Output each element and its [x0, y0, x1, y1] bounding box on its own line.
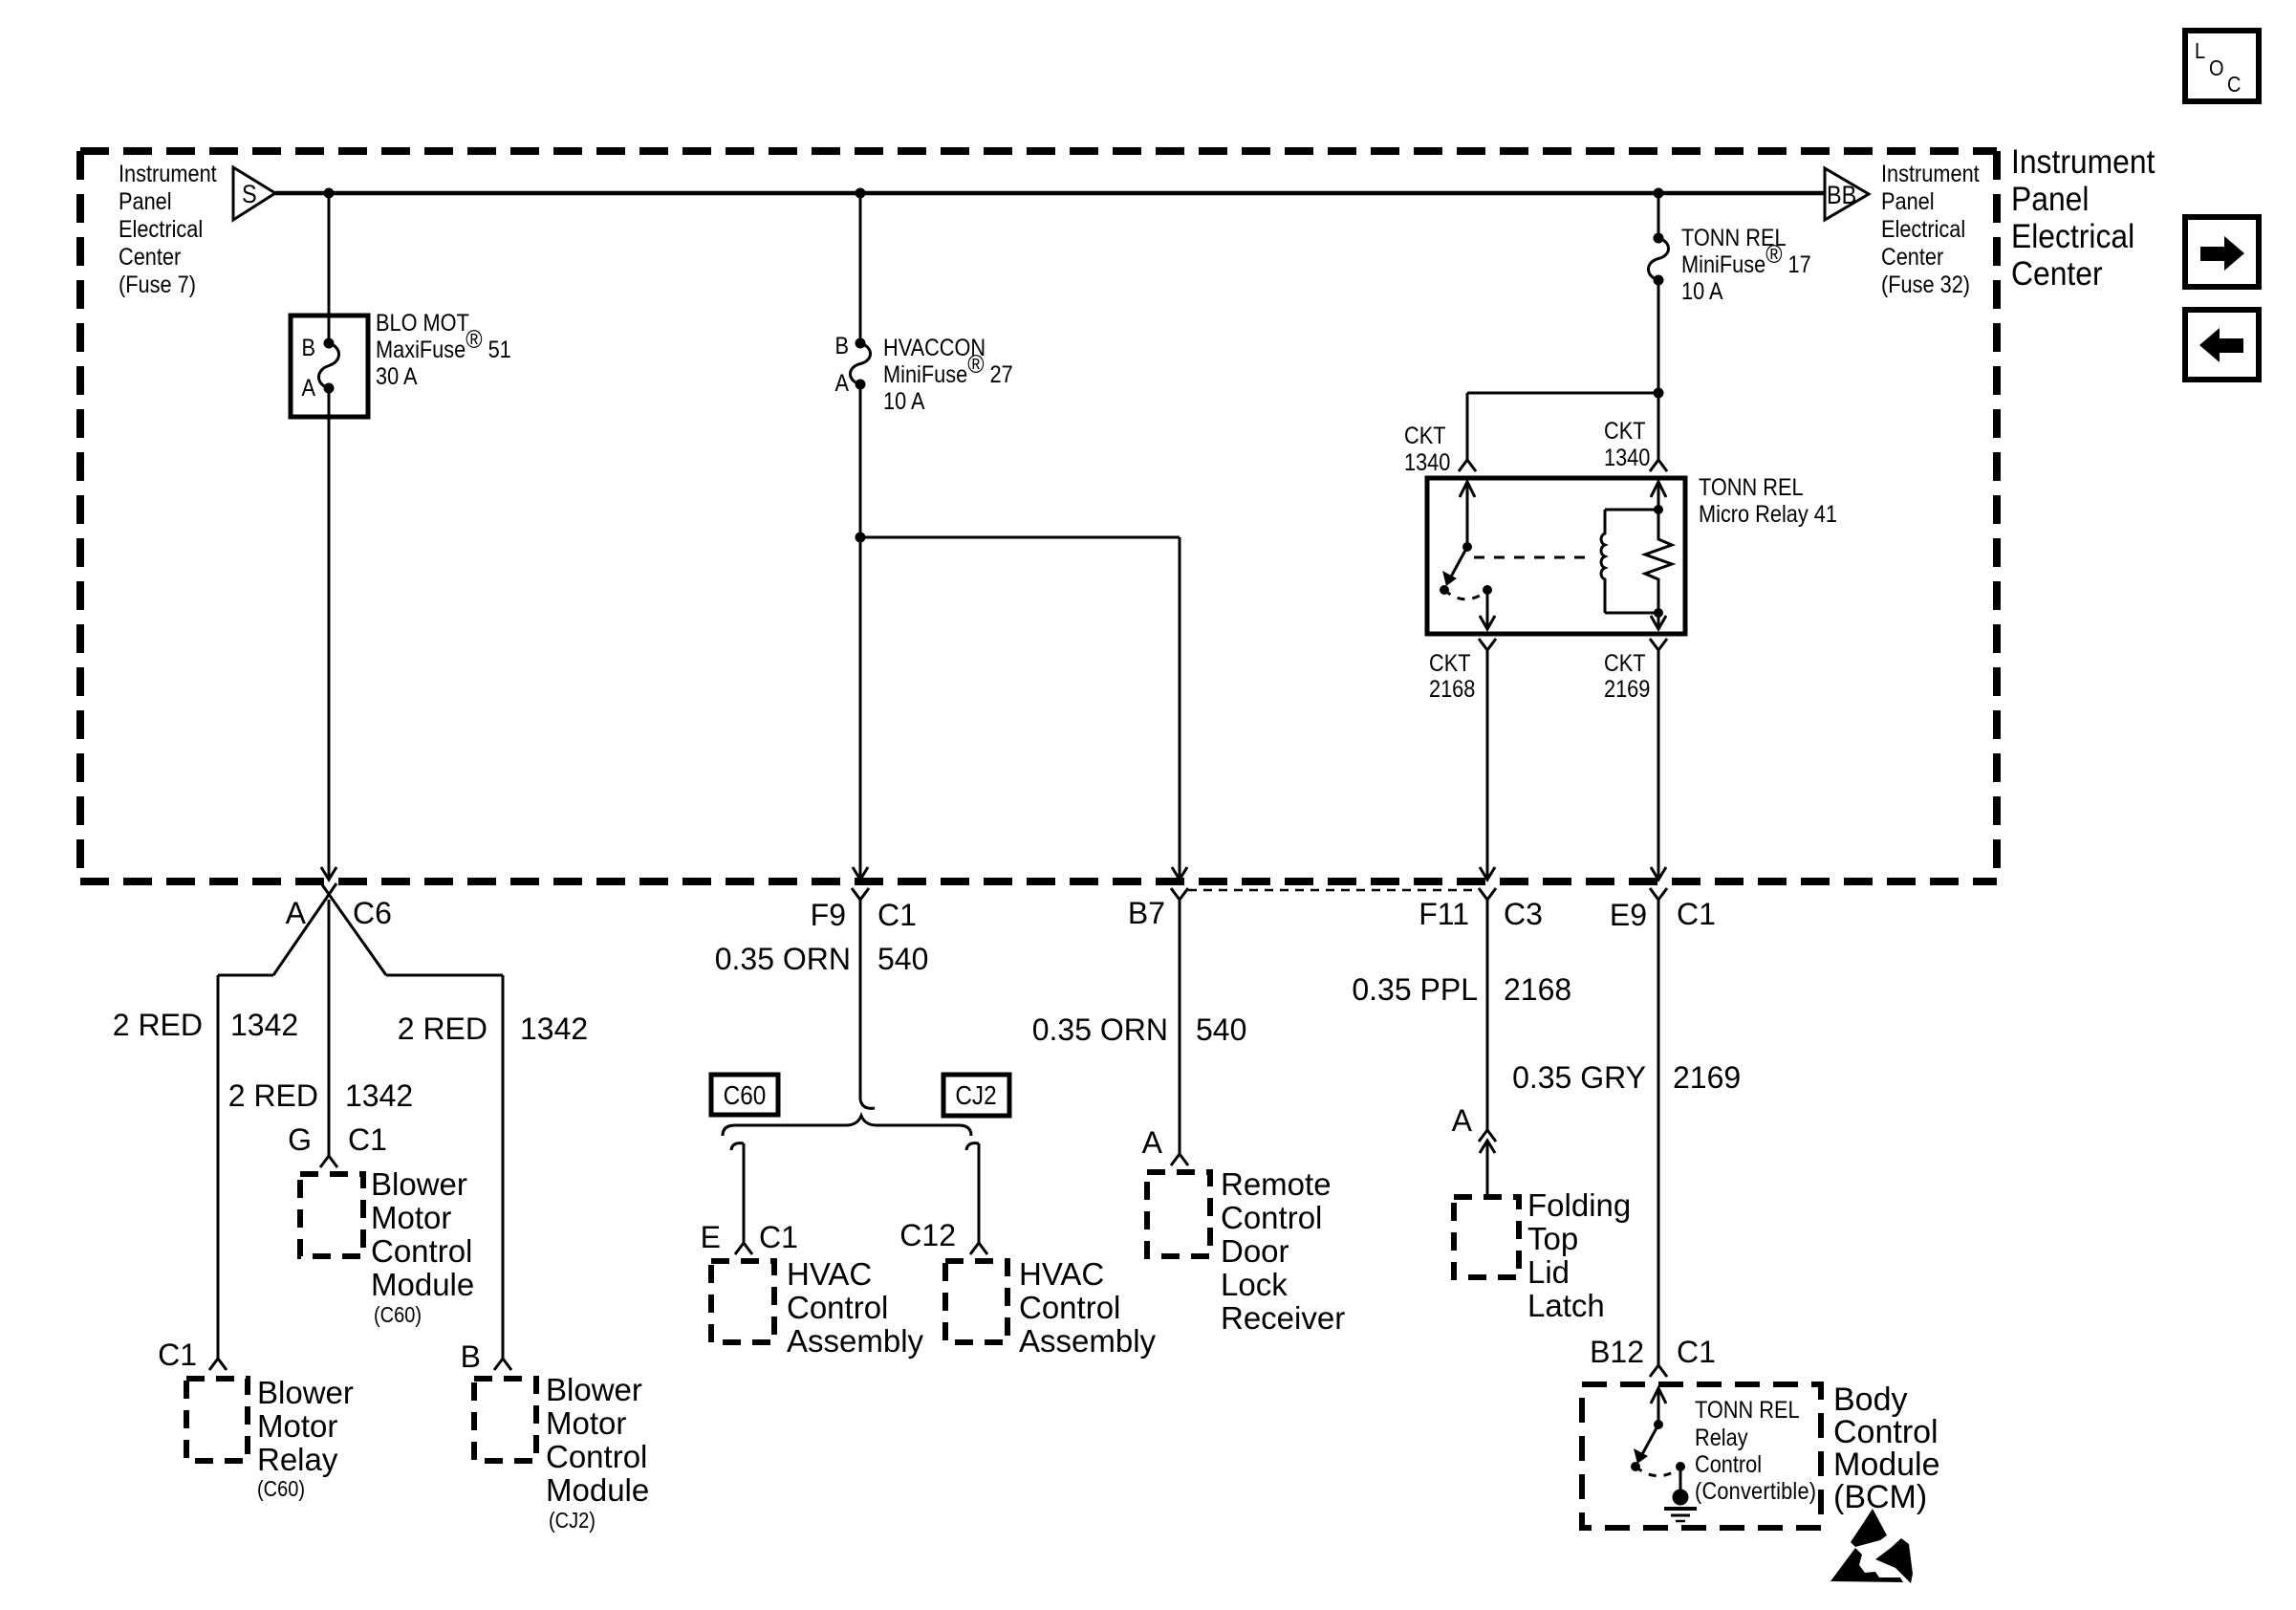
- wire: fuse 51 to connector C6 pin A: [328, 388, 331, 880]
- arrow at C6 connector: [321, 867, 336, 880]
- wire: F9 down to splice: [859, 900, 862, 1099]
- relay pin arrow (left, in): [1460, 482, 1475, 497]
- label: TONN REL MiniFuse 17 10 A: [1681, 225, 1811, 305]
- relay pin arrow (right, in): [1651, 482, 1666, 497]
- svg-text:CKT: CKT: [1604, 418, 1645, 445]
- wire label: 0.35 GRY circuit 2169: [1512, 1060, 1741, 1095]
- svg-text:Lid: Lid: [1527, 1254, 1570, 1290]
- splice hook: [860, 1099, 875, 1108]
- arrow at F11: [1480, 867, 1495, 880]
- relay switch arm: [1450, 547, 1467, 578]
- node: bus junction at BLO MOT feed: [324, 188, 335, 199]
- wire: splice to HVAC control assembly E/C1: [731, 1143, 744, 1243]
- svg-text:Module: Module: [1833, 1447, 1940, 1483]
- connector at blower motor relay C1: [209, 1359, 227, 1370]
- svg-text:L: L: [2195, 38, 2205, 64]
- svg-text:2169: 2169: [1604, 676, 1650, 703]
- off-page connector S (from Fuse 7): [233, 167, 275, 220]
- svg-text:E: E: [701, 1220, 721, 1254]
- wire: relay common out: [1486, 590, 1489, 629]
- wire: coil bottom out: [1657, 613, 1660, 629]
- connector into relay (right): [1650, 460, 1667, 471]
- relay TONN REL Micro Relay 41 (box): [1427, 478, 1685, 634]
- svg-text:Panel: Panel: [1881, 188, 1935, 215]
- wire label: CKT 2169: [1604, 650, 1650, 703]
- svg-text:(Fuse 32): (Fuse 32): [1881, 272, 1970, 298]
- legend LOC box: [2185, 31, 2259, 101]
- svg-text:(C60): (C60): [374, 1302, 422, 1328]
- component: Blower Motor Control Module CJ2 (dashed): [474, 1379, 536, 1461]
- connector below relay (right): [1650, 639, 1667, 650]
- wire: middle branch to blower motor control module G: [328, 900, 331, 1156]
- label: Folding Top Lid Latch: [1527, 1187, 1631, 1323]
- BCM switch arm: [1641, 1425, 1658, 1456]
- connector F9/C1: [852, 888, 869, 900]
- ground: [1664, 1490, 1697, 1522]
- svg-text:Electrical: Electrical: [119, 216, 203, 243]
- svg-text:Electrical: Electrical: [2011, 219, 2134, 256]
- relay switch dashed throw arc: [1444, 590, 1487, 599]
- BCM switch contact (right): [1676, 1462, 1685, 1471]
- svg-text:Top: Top: [1527, 1221, 1578, 1256]
- pin B of fuse 51: [301, 335, 315, 361]
- fuse BLO MOT MaxiFuse 51 30 A (boxed): [291, 315, 368, 417]
- pin A of fuse 51: [301, 375, 315, 402]
- label: HVAC Control Assembly: [1019, 1256, 1157, 1359]
- BCM switch arm arrowhead: [1634, 1448, 1648, 1464]
- svg-text:C1: C1: [1677, 897, 1716, 931]
- component: Blower Motor Control Module C60 (dashed): [300, 1174, 363, 1256]
- label: Blower Motor Control Module (C60): [371, 1166, 474, 1327]
- svg-text:Assembly: Assembly: [1019, 1323, 1157, 1359]
- BCM driver line: [1657, 1388, 1660, 1425]
- svg-text:Lock: Lock: [1221, 1267, 1288, 1302]
- svg-text:Relay: Relay: [257, 1442, 338, 1477]
- svg-text:0.35 ORN: 0.35 ORN: [1032, 1012, 1168, 1047]
- connector at module pin G: [320, 1156, 337, 1167]
- svg-text:Door: Door: [1221, 1233, 1289, 1269]
- svg-text:Latch: Latch: [1527, 1288, 1605, 1323]
- wire label: 0.35 ORN circuit 540 (B7): [1032, 1012, 1247, 1047]
- svg-text:2169: 2169: [1673, 1060, 1741, 1095]
- svg-text:F9: F9: [811, 898, 846, 932]
- component: Blower Motor Relay (dashed): [186, 1379, 248, 1461]
- svg-text:B12: B12: [1590, 1335, 1644, 1369]
- wire: F11 to inline connector A: [1486, 900, 1489, 1130]
- connector at pin A: [1171, 1154, 1188, 1165]
- svg-text:Panel: Panel: [119, 188, 172, 215]
- svg-text:CJ2: CJ2: [955, 1079, 996, 1110]
- svg-text:Control: Control: [787, 1290, 888, 1325]
- svg-text:Center: Center: [119, 244, 181, 271]
- svg-text:Module: Module: [371, 1267, 474, 1302]
- svg-text:1342: 1342: [520, 1012, 588, 1046]
- svg-text:30 A: 30 A: [376, 363, 418, 390]
- wire: contact to ground: [1679, 1467, 1682, 1491]
- legend arrow right box: [2185, 217, 2259, 287]
- svg-text:C1: C1: [348, 1122, 387, 1157]
- svg-text:C1: C1: [1677, 1335, 1716, 1369]
- svg-text:Motor: Motor: [257, 1408, 337, 1444]
- connector box CJ2: [943, 1075, 1009, 1116]
- svg-text:C1: C1: [759, 1220, 798, 1254]
- label: TONN REL Micro Relay 41: [1699, 474, 1837, 528]
- svg-text:Electrical: Electrical: [1881, 216, 1965, 243]
- wire: bus to fuse 17: [1657, 193, 1660, 238]
- component: Body Control Module (dashed): [1582, 1384, 1821, 1528]
- label: Body Control Module (BCM): [1833, 1382, 1940, 1515]
- inline connector A (female): [1479, 1130, 1496, 1142]
- relay switch contact (left): [1440, 585, 1449, 595]
- svg-text:Instrument: Instrument: [119, 161, 217, 187]
- svg-text:C6: C6: [353, 896, 392, 930]
- wire: bus to fuse 27 terminal B: [859, 193, 862, 343]
- svg-text:Blower: Blower: [257, 1375, 354, 1410]
- node: branch junction to B7: [856, 533, 866, 543]
- wire: left branch to blower motor relay: [218, 975, 273, 1359]
- wire label: CKT 1340 (left): [1404, 423, 1450, 476]
- node: junction for relay feed branch: [1654, 388, 1664, 399]
- svg-text:C60: C60: [724, 1079, 767, 1110]
- label: BLO MOT MaxiFuse 51 30 A: [376, 310, 511, 390]
- pin B of fuse 27: [834, 333, 849, 359]
- relay switch common line (left): [1466, 482, 1469, 547]
- connector at pin E: [735, 1243, 752, 1254]
- svg-text:B: B: [301, 335, 315, 361]
- svg-text:(Fuse 7): (Fuse 7): [119, 272, 196, 298]
- svg-text:A: A: [1142, 1125, 1163, 1160]
- svg-text:G: G: [288, 1122, 312, 1157]
- svg-text:TONN REL: TONN REL: [1695, 1397, 1800, 1424]
- svg-text:Module: Module: [546, 1472, 649, 1508]
- svg-text:Center: Center: [2011, 256, 2103, 294]
- svg-text:B7: B7: [1128, 896, 1165, 930]
- node A/C6: crossing split: [273, 883, 386, 975]
- svg-text:Relay: Relay: [1695, 1425, 1748, 1451]
- wire: branch to remote control door lock receiver B7: [860, 537, 1180, 880]
- connector at pin C12: [970, 1243, 987, 1254]
- wire: B7 to remote control door lock receiver: [1179, 900, 1181, 1154]
- svg-text:(Convertible): (Convertible): [1695, 1478, 1816, 1505]
- svg-text:BLO MOT: BLO MOT: [376, 310, 469, 337]
- connector E9/C1: [1650, 888, 1667, 900]
- svg-text:2168: 2168: [1429, 676, 1475, 703]
- svg-text:Control: Control: [546, 1439, 647, 1474]
- svg-text:S: S: [242, 181, 257, 209]
- label: Instrument Panel Electrical Center (large, outside): [2011, 144, 2155, 294]
- BCM pin arrow (in): [1651, 1388, 1666, 1403]
- svg-text:Control: Control: [371, 1233, 472, 1269]
- BCM switch contact (left): [1631, 1462, 1640, 1471]
- svg-text:Folding: Folding: [1527, 1187, 1631, 1223]
- ESD sensitive device symbol: [1830, 1509, 1913, 1583]
- wire: relay out to F11: [1486, 650, 1489, 880]
- svg-text:Control: Control: [1695, 1451, 1762, 1478]
- svg-text:0.35 ORN: 0.35 ORN: [715, 942, 851, 976]
- connector B7: [1171, 888, 1188, 900]
- svg-text:A: A: [1452, 1103, 1473, 1138]
- label: Instrument Panel Electrical Center (Fuse 32): [1881, 161, 1980, 298]
- splice brace: [723, 1116, 971, 1136]
- svg-text:C1: C1: [158, 1338, 197, 1372]
- pin A of fuse 27: [834, 370, 849, 397]
- svg-text:O: O: [2209, 55, 2224, 81]
- fuse TONN REL MiniFuse 17 10 A: [1649, 233, 1669, 286]
- svg-text:Instrument: Instrument: [2011, 144, 2155, 182]
- wire: fuse 27 to connector C1 pin F9: [859, 384, 862, 880]
- svg-text:Control: Control: [1019, 1290, 1120, 1325]
- svg-text:1340: 1340: [1604, 445, 1650, 471]
- component: Remote Control Door Lock Receiver (dashed): [1147, 1172, 1210, 1256]
- svg-text:Control: Control: [1833, 1414, 1939, 1450]
- inline connector A (male arrow): [1480, 1141, 1495, 1153]
- arrow at E9: [1651, 867, 1666, 880]
- svg-text:C1: C1: [877, 898, 917, 932]
- wire label: 2 RED circuit 1342 (left branch): [113, 1008, 298, 1042]
- fuse HVACCON MiniFuse 27 10 A: [851, 338, 871, 390]
- relay mechanical link (dashed): [1474, 556, 1594, 559]
- wire label: 0.35 ORN circuit 540 (F9): [715, 942, 929, 976]
- label: Blower Motor Relay (C60): [257, 1375, 354, 1501]
- svg-text:2 RED: 2 RED: [113, 1008, 203, 1042]
- svg-text:Panel: Panel: [2011, 182, 2089, 219]
- svg-text:CKT: CKT: [1604, 650, 1645, 677]
- wire: connector A to folding top lid latch: [1486, 1141, 1489, 1195]
- node: coil/resistor top: [1654, 505, 1663, 514]
- connector dashed link B7 to F11: [1188, 889, 1480, 892]
- svg-text:10 A: 10 A: [883, 388, 925, 415]
- arrow at F9: [853, 867, 868, 880]
- legend arrow left box: [2185, 310, 2259, 380]
- svg-text:E9: E9: [1610, 898, 1647, 932]
- wire label: CKT 2168: [1429, 650, 1475, 703]
- label: Blower Motor Control Module (CJ2): [546, 1372, 649, 1533]
- svg-text:0.35 PPL: 0.35 PPL: [1352, 972, 1478, 1007]
- wire: branch to relay 41 pin (left): [1467, 393, 1658, 460]
- svg-text:1340: 1340: [1404, 449, 1450, 476]
- wire label: 0.35 PPL circuit 2168: [1352, 972, 1571, 1007]
- svg-text:540: 540: [1196, 1012, 1246, 1047]
- svg-text:Blower: Blower: [546, 1372, 642, 1407]
- svg-text:Micro Relay 41: Micro Relay 41: [1699, 501, 1837, 528]
- label: Instrument Panel Electrical Center (Fuse 7): [119, 161, 217, 298]
- svg-text:TONN REL: TONN REL: [1699, 474, 1804, 501]
- svg-text:1342: 1342: [345, 1078, 413, 1113]
- svg-text:2 RED: 2 RED: [398, 1012, 487, 1046]
- svg-text:Motor: Motor: [546, 1405, 626, 1441]
- BCM switch dashed throw arc: [1635, 1467, 1680, 1476]
- svg-text:Remote: Remote: [1221, 1166, 1332, 1202]
- node: bus junction at HVACCON feed: [856, 188, 866, 199]
- svg-text:10 A: 10 A: [1681, 278, 1723, 305]
- svg-text:Motor: Motor: [371, 1200, 451, 1235]
- svg-text:HVAC: HVAC: [787, 1256, 872, 1292]
- connector into relay (left): [1459, 460, 1476, 471]
- connector below relay (left): [1479, 639, 1496, 650]
- BCM switch pivot: [1654, 1420, 1663, 1429]
- svg-text:Control: Control: [1221, 1200, 1322, 1235]
- connector at BCM pin B12: [1650, 1365, 1667, 1377]
- connector at module pin B: [494, 1359, 511, 1370]
- wire: relay out to E9: [1657, 650, 1660, 880]
- svg-text:0.35 GRY: 0.35 GRY: [1512, 1060, 1646, 1095]
- arrow at relay common out: [1480, 616, 1495, 629]
- relay switch arm arrowhead: [1442, 571, 1457, 586]
- svg-text:(CJ2): (CJ2): [549, 1508, 596, 1534]
- svg-text:Center: Center: [1881, 244, 1943, 271]
- label: HVAC Control Assembly: [787, 1256, 924, 1359]
- svg-text:Instrument: Instrument: [1881, 161, 1980, 187]
- svg-text:(C60): (C60): [257, 1476, 305, 1502]
- wire label: 2 RED circuit 1342 (right branch): [398, 1012, 588, 1046]
- svg-text:C3: C3: [1504, 897, 1543, 931]
- label: TONN REL Relay Control (Convertible): [1695, 1397, 1816, 1505]
- relay suppression resistor: [1645, 510, 1672, 613]
- wire label: 2 RED circuit 1342 (middle branch): [228, 1078, 413, 1113]
- wire: E9 to BCM B12: [1657, 900, 1660, 1365]
- wire: fuse 17 down to relay 41 pin (right): [1657, 280, 1660, 460]
- connector box C60: [711, 1075, 778, 1115]
- wire: bus to fuse 51 terminal B: [328, 193, 331, 343]
- connector F11/C3: [1479, 888, 1496, 900]
- label: HVACCON MiniFuse 27 10 A: [883, 335, 1013, 415]
- wire: splice to HVAC control assembly C12: [966, 1143, 979, 1243]
- component: HVAC Control Assembly CJ2 (dashed): [945, 1261, 1007, 1342]
- wire: main feed bus: [275, 191, 1825, 196]
- svg-text:CKT: CKT: [1429, 650, 1470, 677]
- svg-text:2 RED: 2 RED: [228, 1078, 318, 1113]
- relay switch pivot: [1462, 542, 1472, 552]
- svg-text:(BCM): (BCM): [1833, 1479, 1927, 1515]
- svg-text:540: 540: [877, 942, 928, 976]
- label: Remote Control Door Lock Receiver: [1221, 1166, 1345, 1336]
- node: coil/resistor bottom: [1654, 608, 1663, 618]
- svg-text:A: A: [286, 896, 307, 930]
- relay coil: [1601, 510, 1658, 613]
- arrow at coil out: [1651, 616, 1666, 629]
- svg-text:Receiver: Receiver: [1221, 1300, 1345, 1336]
- svg-text:1342: 1342: [230, 1008, 298, 1042]
- svg-text:C12: C12: [899, 1218, 956, 1252]
- svg-text:B: B: [834, 333, 849, 359]
- svg-text:B: B: [461, 1339, 481, 1374]
- wire label: CKT 1340 (right): [1604, 418, 1650, 471]
- relay switch contact (common out): [1483, 585, 1492, 595]
- svg-text:CKT: CKT: [1404, 423, 1445, 449]
- svg-text:C: C: [2227, 72, 2241, 98]
- svg-text:A: A: [301, 375, 315, 402]
- svg-text:Body: Body: [1833, 1382, 1908, 1418]
- svg-text:F11: F11: [1419, 897, 1469, 931]
- component: Folding Top Lid Latch (dashed): [1454, 1197, 1519, 1277]
- node: bus junction at TONN REL feed: [1654, 188, 1664, 199]
- svg-text:BB: BB: [1827, 182, 1856, 210]
- wire: relay right pin to coil top: [1657, 482, 1660, 510]
- svg-text:HVAC: HVAC: [1019, 1256, 1104, 1292]
- instrument panel electrical center boundary (dashed box): [80, 151, 1997, 881]
- arrow at B7: [1172, 867, 1187, 880]
- svg-text:2168: 2168: [1504, 972, 1571, 1007]
- component: HVAC Control Assembly C60 (dashed): [711, 1261, 774, 1342]
- svg-text:A: A: [834, 370, 849, 397]
- svg-text:Blower: Blower: [371, 1166, 467, 1202]
- wire: right branch to blower motor control module CJ2: [386, 975, 503, 1359]
- svg-text:Assembly: Assembly: [787, 1323, 924, 1359]
- off-page connector BB (to Fuse 32): [1825, 168, 1869, 220]
